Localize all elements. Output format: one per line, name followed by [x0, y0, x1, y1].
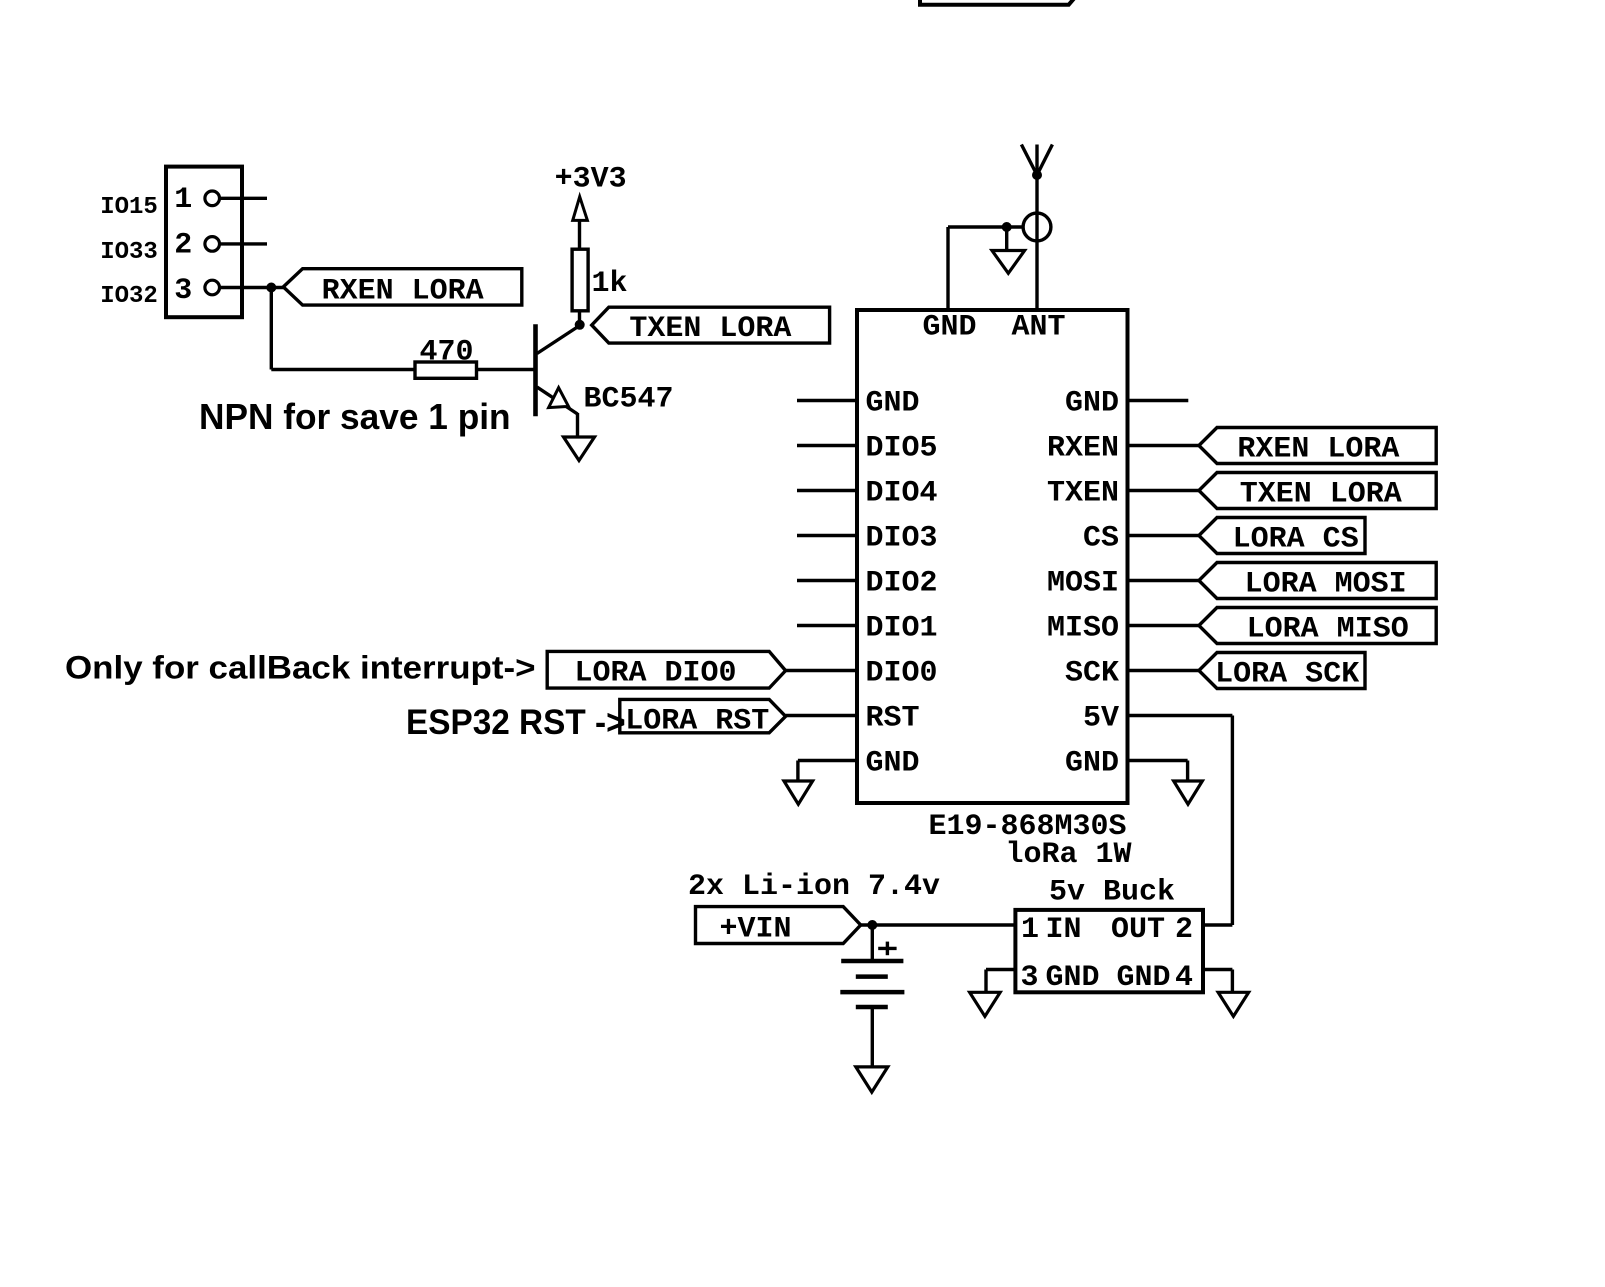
- svg-text:2x Li-ion 7.4v: 2x Li-ion 7.4v: [688, 870, 940, 904]
- svg-text:NPN for save 1 pin: NPN for save 1 pin: [199, 397, 511, 437]
- svg-text:IO33: IO33: [100, 239, 158, 266]
- svg-text:DIO5: DIO5: [866, 432, 938, 466]
- svg-text:TXEN: TXEN: [1047, 477, 1119, 511]
- svg-text:GND: GND: [1065, 387, 1119, 421]
- svg-text:TXEN LORA: TXEN LORA: [629, 312, 791, 346]
- svg-text:RXEN LORA: RXEN LORA: [1237, 433, 1399, 467]
- svg-text:Only for callBack interrupt->: Only for callBack interrupt->: [65, 651, 536, 686]
- svg-text:2: 2: [174, 229, 192, 263]
- svg-text:RXEN LORA: RXEN LORA: [322, 275, 484, 309]
- svg-text:3: 3: [1021, 961, 1039, 995]
- svg-text:3: 3: [174, 274, 192, 308]
- svg-text:LORA DIO0: LORA DIO0: [574, 657, 736, 691]
- svg-text:DIO0: DIO0: [866, 657, 938, 691]
- svg-text:4: 4: [1175, 961, 1193, 995]
- svg-text:DIO2: DIO2: [866, 567, 938, 601]
- svg-text:LORA RST: LORA RST: [625, 705, 769, 739]
- svg-text:DIO3: DIO3: [866, 522, 938, 556]
- svg-text:MOSI: MOSI: [1047, 567, 1119, 601]
- svg-text:LORA CS: LORA CS: [1233, 523, 1359, 557]
- svg-text:GND: GND: [1117, 961, 1171, 995]
- svg-text:SCK: SCK: [1065, 657, 1119, 691]
- svg-text:GND: GND: [1046, 961, 1100, 995]
- svg-text:IO32: IO32: [100, 283, 158, 310]
- svg-text:loRa 1W: loRa 1W: [1006, 838, 1132, 872]
- svg-text:CS: CS: [1083, 522, 1119, 556]
- svg-text:RXEN: RXEN: [1047, 432, 1119, 466]
- svg-text:LORA MISO: LORA MISO: [1247, 613, 1409, 647]
- svg-text:IN: IN: [1046, 913, 1082, 947]
- svg-text:TXEN LORA: TXEN LORA: [1240, 478, 1402, 512]
- svg-text:DIO4: DIO4: [866, 477, 938, 511]
- svg-text:1: 1: [1021, 913, 1039, 947]
- svg-text:GND: GND: [1065, 747, 1119, 781]
- svg-text:LORA MOSI: LORA MOSI: [1245, 568, 1407, 602]
- svg-text:ESP32 RST ->: ESP32 RST ->: [406, 703, 626, 742]
- svg-text:BC547: BC547: [584, 382, 674, 416]
- svg-text:DIO1: DIO1: [866, 612, 938, 646]
- svg-text:470: 470: [419, 336, 473, 370]
- svg-text:MISO: MISO: [1047, 612, 1119, 646]
- svg-text:1: 1: [174, 183, 192, 217]
- svg-text:GND: GND: [866, 747, 920, 781]
- svg-text:+VIN: +VIN: [720, 913, 792, 947]
- svg-text:1k: 1k: [592, 267, 628, 301]
- svg-text:ANT: ANT: [1011, 311, 1065, 345]
- svg-text:+3V3: +3V3: [555, 162, 627, 196]
- svg-text:5V: 5V: [1083, 702, 1119, 736]
- svg-text:5v Buck: 5v Buck: [1049, 876, 1175, 910]
- svg-text:GND: GND: [866, 387, 920, 421]
- svg-text:GND: GND: [922, 311, 976, 345]
- svg-text:RST: RST: [866, 702, 920, 736]
- svg-text:2: 2: [1175, 913, 1193, 947]
- svg-text:OUT: OUT: [1111, 913, 1165, 947]
- svg-text:IO15: IO15: [100, 194, 158, 221]
- svg-text:LORA SCK: LORA SCK: [1215, 658, 1359, 692]
